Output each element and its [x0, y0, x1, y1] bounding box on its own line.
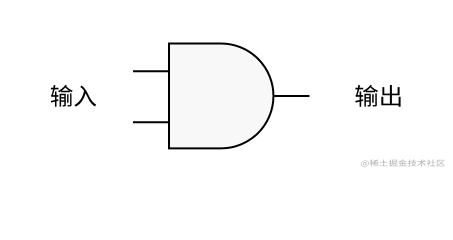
wire: output (right) — [273, 95, 310, 97]
watermark: @稀土掘金技术社区 — [361, 159, 445, 167]
AND gate U1 body — [169, 44, 273, 149]
label: 输出 (output) — [355, 85, 400, 107]
wire: input A (top-left) — [133, 70, 170, 72]
wire: input B (bottom-left) — [133, 121, 170, 123]
label: 输入 (input) — [51, 85, 96, 107]
